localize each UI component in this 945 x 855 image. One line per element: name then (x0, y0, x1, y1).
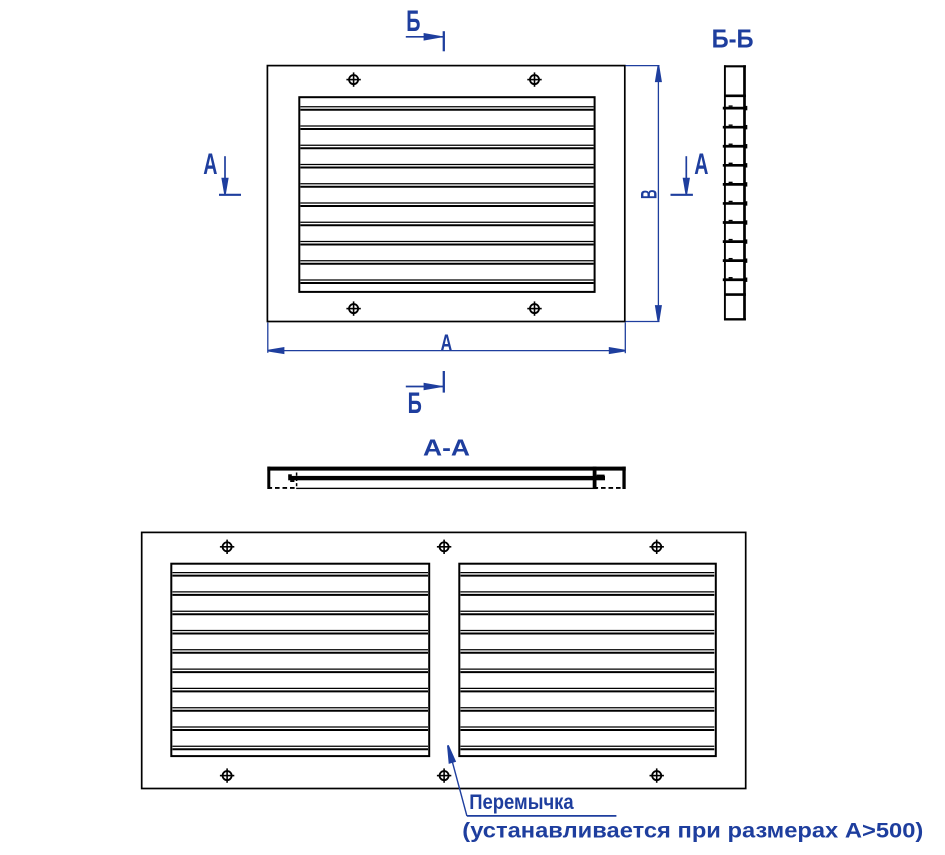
bottom view right panel slat 9 (461, 727, 715, 730)
front view slat 5 (300, 184, 593, 187)
bottom view left panel slat 6 (173, 669, 429, 672)
bottom view left panel slat 1 (173, 573, 429, 576)
А-А section left box dashed divider (296, 467, 298, 488)
Б-Б section bottom box top edge (724, 293, 746, 296)
svg-text:А: А (203, 148, 217, 181)
svg-text:Б: Б (408, 387, 422, 420)
bottom view screw hole 3 (650, 540, 664, 554)
bottom view screw hole 4 (220, 768, 234, 782)
А-А section bottom thin line (296, 488, 597, 489)
А-А section left box wall (267, 467, 270, 489)
bottom view left panel slat 7 (173, 688, 429, 691)
front view slat 3 (300, 145, 593, 148)
А-А section top flange band (267, 467, 625, 471)
front view screw hole 2 (527, 72, 541, 86)
front view slat 4 (300, 165, 593, 168)
front view screw hole 4 (527, 301, 541, 315)
dimension A: arrowhead right (610, 348, 625, 353)
А-А section right box inner bar (593, 467, 597, 489)
bottom view right panel slat 1 (461, 573, 715, 576)
Б-Б section slat 8 (723, 239, 748, 244)
svg-text:В: В (637, 189, 662, 199)
front view slat 2 (300, 126, 593, 129)
bottom view left panel slat 9 (173, 727, 429, 730)
Б-Б section frame box bottom edge (724, 95, 746, 98)
Б-Б section slat 7 (723, 220, 748, 225)
front view slat 7 (300, 222, 593, 225)
Б-Б section bottom edge (724, 318, 746, 320)
dimension B: extension line bottom (626, 321, 660, 323)
bottom view left panel slat 2 (173, 592, 429, 595)
dimension B: dimension line (657, 66, 659, 322)
bottom view right panel slat 3 (461, 611, 715, 614)
svg-text:А: А (694, 148, 708, 181)
bottom view right panel slat 8 (461, 708, 715, 711)
svg-text:Перемычка: Перемычка (469, 790, 574, 814)
А-А section slat band (288, 474, 605, 482)
bottom view left panel slat 4 (173, 631, 429, 634)
front view grille border (299, 97, 594, 292)
Б-Б section slat 6 (723, 201, 748, 206)
bottom view left panel slat 3 (173, 611, 429, 614)
front view slat 1 (300, 107, 593, 110)
dimension A: dimension line (268, 350, 625, 352)
section marker Б bottom: plane bar (443, 371, 445, 393)
front view screw hole 1 (346, 72, 360, 86)
section marker А right: arrow line (684, 156, 689, 194)
bottom view right panel slat 4 (461, 631, 715, 634)
bottom view outer frame (142, 532, 746, 788)
bottom view screw hole 6 (650, 768, 664, 782)
dimension A: extension line left (267, 323, 269, 353)
dimension A: arrowhead left (268, 348, 283, 353)
Б-Б section slat 5 (723, 182, 748, 187)
dimension B: arrowhead bottom (656, 306, 661, 321)
bottom view screw hole 2 (437, 540, 451, 554)
А-А section right box dashed bottom (594, 487, 625, 489)
bottom view right panel slat 2 (461, 592, 715, 595)
bottom view left panel border (171, 564, 429, 756)
svg-text:Б: Б (406, 5, 420, 38)
section marker Б top: plane bar (443, 31, 445, 51)
dimension B: arrowhead top (656, 66, 661, 81)
bottom view right panel slat 5 (461, 650, 715, 653)
Б-Б section slat 1 (723, 105, 748, 110)
dimension B: extension line top (626, 65, 660, 67)
bottom view right panel slat 7 (461, 688, 715, 691)
bottom view right panel border (459, 564, 716, 756)
front view slat 8 (300, 242, 593, 245)
bottom view left panel slat 5 (173, 650, 429, 653)
Б-Б section right wall (743, 65, 746, 320)
bottom view screw hole 5 (437, 768, 451, 782)
Б-Б section left wall (724, 65, 726, 320)
Б-Б section slat 2 (723, 124, 748, 129)
bottom view screw hole 1 (220, 540, 234, 554)
Б-Б section slat 10 (723, 277, 748, 282)
bottom view right panel slat 10 (461, 746, 715, 749)
svg-text:А: А (441, 329, 453, 355)
section marker А left: plane bar (219, 194, 241, 196)
А-А section left box dashed bottom (268, 487, 298, 489)
Б-Б section slat 3 (723, 144, 748, 149)
bottom view left panel slat 10 (173, 746, 429, 749)
section marker А left: arrow line (222, 156, 227, 194)
front view screw hole 3 (346, 301, 360, 315)
dimension A: extension line right (624, 323, 626, 354)
front view slat 10 (300, 280, 593, 283)
front view slat 6 (300, 203, 593, 206)
svg-text:А-А: А-А (423, 435, 470, 461)
section marker Б top: arrow line (406, 34, 443, 39)
bottom view left panel slat 8 (173, 708, 429, 711)
Б-Б section slat 9 (723, 258, 748, 263)
svg-text:(устанавливается при размерах: (устанавливается при размерах А>500) (462, 819, 923, 843)
перемычка leader line (451, 755, 467, 816)
front view outer frame (267, 66, 624, 322)
перемычка leader arrowhead (448, 745, 455, 762)
front view slat 9 (300, 261, 593, 264)
section marker Б bottom: arrow line (406, 384, 443, 389)
Б-Б section slat 4 (723, 163, 748, 168)
А-А section right box wall (622, 467, 625, 489)
svg-text:Б-Б: Б-Б (712, 24, 754, 54)
bottom view right panel slat 6 (461, 669, 715, 672)
перемычка leader underline (467, 815, 617, 817)
section marker А right: plane bar (671, 194, 693, 196)
Б-Б section top edge (724, 65, 746, 67)
